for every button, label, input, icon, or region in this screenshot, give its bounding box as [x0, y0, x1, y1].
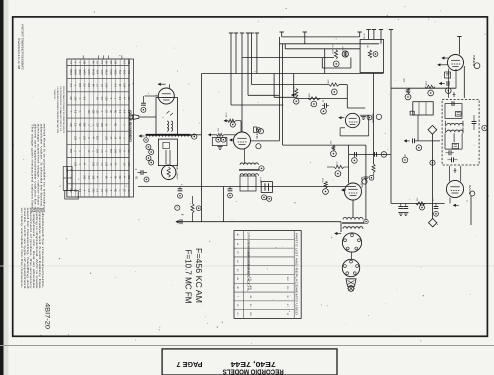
svg-text:+: + — [330, 237, 334, 239]
svg-text:12SA: 12SA — [109, 69, 112, 75]
can coil lower — [444, 128, 446, 134]
grid line arrow — [208, 133, 211, 136]
junction terminal on diamond wire — [430, 160, 435, 165]
resistor 100K b — [406, 88, 409, 94]
svg-text:1 MEG: 1 MEG — [292, 84, 294, 92]
wire vertical x347.3 — [346, 85, 348, 108]
wire 470K mid link — [339, 84, 347, 86]
terminal 4700 — [335, 171, 341, 177]
wire riser f — [380, 30, 382, 44]
terminal Ra — [293, 99, 299, 105]
svg-text:SPEAKER FIELD: SPEAKER FIELD — [53, 90, 56, 100]
svg-text:average superhet stage, rather: average superhet stage, rather than an — [37, 124, 40, 214]
can top mark — [453, 92, 455, 97]
svg-text:A7 056: A7 056 — [363, 34, 366, 40]
svg-text:7E4: 7E4 — [118, 70, 120, 75]
bus cap C b — [229, 187, 231, 189]
antenna cap assembly — [143, 96, 145, 103]
can bottom mark — [454, 168, 456, 173]
grid box terminal b — [221, 137, 226, 142]
terminal 47K det — [420, 205, 425, 210]
resistor 470K upper — [224, 119, 227, 122]
left terminal t1 — [144, 138, 149, 143]
svg-text:so many variables into the mea: so many variables into the measure- — [20, 208, 23, 289]
table corner cells — [63, 167, 72, 191]
wire V7 stub — [449, 198, 451, 204]
resistor 500K h — [308, 97, 320, 100]
svg-text:THE COOPERATION OF THE MANUFAC: THE COOPERATION OF THE MANUFACTURER OF T… — [59, 86, 62, 132]
table footnote ticks — [82, 55, 84, 58]
svg-text:NC: NC — [113, 189, 115, 193]
svg-text:.05: .05 — [322, 100, 324, 103]
svg-text:6AL5: 6AL5 — [468, 185, 471, 195]
wire V7 down — [470, 196, 472, 225]
tube V2 grid arrow — [229, 138, 232, 141]
small FM can — [413, 102, 433, 115]
wire bus y85 — [252, 84, 329, 86]
svg-text:470K: 470K — [341, 46, 343, 51]
wire y145.1 — [283, 144, 366, 146]
can trimmer upper — [455, 112, 461, 117]
tube V1 6BA6 IF amp — [158, 88, 174, 104]
svg-text:6AQ5: 6AQ5 — [91, 69, 94, 76]
resistor 47K det — [416, 202, 425, 205]
det cap ground a — [400, 203, 402, 206]
wire vertical x223.4 — [222, 187, 224, 222]
svg-text:98: 98 — [70, 169, 72, 171]
osc coil box — [360, 39, 383, 72]
wire riser a — [281, 32, 283, 37]
svg-text:100K: 100K — [424, 81, 426, 86]
terminal 15K — [331, 151, 337, 157]
cap a y154 — [354, 152, 356, 157]
can lower loop — [444, 133, 446, 149]
can side terminal — [482, 125, 487, 130]
wire y105 — [231, 104, 283, 106]
svg-text:The stage gain measured values: The stage gain measured values listed — [31, 124, 34, 214]
svg-text:6BA6: 6BA6 — [69, 69, 72, 75]
bus cap C a — [179, 187, 181, 189]
svg-text:RECORDIO MODELS: RECORDIO MODELS — [222, 368, 283, 375]
svg-text:6BA6: 6BA6 — [78, 69, 81, 75]
grid cap box U1 — [445, 72, 451, 78]
wire vertical x279.4 — [278, 44, 280, 141]
circled resistor 470K — [342, 51, 348, 57]
pin circle 7a — [149, 150, 154, 155]
wire vertical x324.7 — [324, 49, 326, 74]
terminal x405 — [402, 157, 408, 163]
wire vertical x274.1 — [273, 74, 275, 98]
tube U1 grid arrow 2 — [437, 63, 440, 66]
diamond test point 2 — [429, 219, 437, 227]
can cap low b — [451, 157, 453, 162]
tube V7 ratio detector — [446, 180, 463, 197]
resistor left chain — [372, 164, 375, 172]
svg-text:of alignment, etc., that an ab: of alignment, etc., that an absolute — [32, 208, 35, 290]
svg-text:† VOLTAGE AND RESISTANCE READI: † VOLTAGE AND RESISTANCE READINGS MAY VA… — [56, 86, 59, 133]
volume terminal — [196, 206, 201, 211]
resistor 15K — [332, 145, 335, 150]
svg-text:47: 47 — [65, 181, 67, 183]
tube V4 grid arrow — [341, 188, 344, 191]
wire vertical x293.7 — [293, 74, 295, 98]
det cap c — [435, 203, 437, 206]
wire V4 plate down — [352, 200, 354, 217]
wire y98.4 — [297, 97, 347, 99]
svg-text:4.5 MEG: 4.5 MEG — [331, 44, 333, 55]
wire V5 to V6 — [351, 252, 353, 259]
svg-text:500K: 500K — [321, 178, 323, 183]
resistor 100K — [425, 85, 435, 88]
IF can dashed box — [442, 100, 479, 166]
svg-text:substituted for measurements.: substituted for measurements. — [41, 208, 44, 290]
terminal B — [144, 177, 149, 182]
svg-text:6BE6: 6BE6 — [74, 69, 76, 75]
can cap right — [472, 121, 477, 123]
pin circle 5 — [146, 145, 151, 150]
wire V2 plate — [244, 149, 246, 163]
pilot lamp — [162, 165, 176, 179]
antenna coil row — [147, 135, 192, 137]
wire can to V7 a — [449, 166, 451, 182]
wire route y73.5 — [202, 73, 384, 75]
svg-text:117Z: 117Z — [100, 69, 102, 75]
svg-text:PAGE 7: PAGE 7 — [176, 360, 202, 367]
wire bus y36.9 — [282, 36, 360, 38]
IF can box1 — [156, 98, 178, 135]
svg-text:35Z5: 35Z5 — [113, 69, 115, 75]
wire y117 phono line — [139, 116, 156, 118]
faint crease line — [0, 265, 494, 267]
tube U1 cathode chain — [448, 69, 450, 98]
svg-text:7E40, 7E44: 7E40, 7E44 — [231, 360, 276, 367]
parts table grid — [234, 231, 301, 319]
resistor 470K mid — [329, 83, 339, 86]
bus2 cap left — [179, 219, 181, 224]
wire bus y57.5 — [242, 57, 334, 59]
output transformer terminal — [364, 219, 368, 223]
can center lead — [453, 133, 455, 142]
wire cap to can — [415, 140, 440, 142]
terminal 500x — [323, 189, 329, 195]
tube U1 6BE6 converter — [448, 55, 464, 71]
svg-text:NC: NC — [113, 123, 115, 127]
wire riser c — [359, 32, 361, 37]
IF can switch marks — [167, 111, 170, 114]
wire vertical x365.9 — [365, 145, 367, 219]
electrolytic 4.6MD box — [261, 182, 272, 193]
pin circle 7b — [149, 160, 154, 165]
coil bar terminal — [192, 134, 197, 139]
wire y95.3 — [248, 94, 279, 96]
table bottom box — [65, 190, 78, 199]
antenna arrow V1 — [158, 83, 161, 86]
svg-text:DIAL LAMP: DIAL LAMP — [176, 165, 179, 181]
wire can to V7 b — [460, 166, 462, 182]
electrolytic terminals — [262, 195, 267, 200]
svg-text:F=10.7 MC FM: F=10.7 MC FM — [183, 250, 192, 304]
svg-text:4MD: 4MD — [249, 285, 251, 290]
wire supply vertical 4 — [247, 33, 249, 95]
svg-text:above are approximate values f: above are approximate values for an — [34, 124, 37, 214]
svg-text:placement of probes, the accur: placement of probes, the accuracy — [29, 208, 32, 291]
wire vertical x341 — [340, 222, 342, 232]
wire supply vertical 5 — [251, 33, 253, 85]
voltage table grid — [67, 59, 129, 197]
wire y88.2 line — [391, 87, 456, 89]
svg-text:absolute value. It should be b: absolute value. It should be borne in — [40, 124, 43, 214]
svg-text:PIN: PIN — [127, 70, 129, 74]
tube V3 plate wiring — [360, 114, 369, 116]
svg-text:470K: 470K — [225, 113, 227, 118]
svg-text:4.6MD: 4.6MD — [259, 177, 261, 183]
can coil upper — [444, 121, 446, 127]
terminal 100A — [321, 108, 327, 114]
wire speaker arrow — [334, 232, 337, 235]
wire riser d — [368, 30, 370, 40]
svg-text:PARTS LIST AND REPLACEMENTS US: PARTS LIST AND REPLACEMENTS USED — [294, 233, 298, 315]
pin circle 3 — [146, 156, 151, 161]
wire y108 — [347, 107, 365, 109]
resistor 4700 — [334, 165, 344, 168]
connector 1B6 — [254, 127, 257, 132]
svg-text:470K: 470K — [327, 79, 329, 84]
terminal 100K — [428, 90, 434, 96]
IF can coil b — [171, 121, 173, 131]
scan speckle noise — [121, 188, 124, 191]
interstage transformer coils — [240, 163, 259, 165]
svg-text:411: 411 — [366, 45, 368, 48]
terminal 500K — [311, 101, 317, 107]
wire B+ vertical x391 — [390, 30, 392, 204]
svg-text:ments, such as type of equipme: ments, such as type of equipment — [23, 208, 26, 290]
grid box — [212, 138, 227, 146]
terminal below U1 — [446, 88, 452, 94]
index strip box — [162, 349, 337, 375]
IF can coil a — [167, 121, 169, 131]
svg-text:47K: 47K — [416, 198, 418, 202]
diamond test point 1 — [428, 125, 437, 134]
svg-text:inoperative and 3-volt battery: inoperative and 3-volt battery bias — [38, 208, 41, 291]
wire riser e — [373, 30, 375, 40]
ground upper left — [361, 116, 366, 118]
resistor R volume — [191, 204, 194, 213]
wire vertical x348.6 — [348, 145, 350, 183]
plug sunburst — [348, 286, 354, 292]
osc coil terminal — [373, 52, 378, 57]
grid box ground — [217, 146, 222, 148]
osc coil resistor — [368, 50, 371, 58]
wire detector line y203.4 — [391, 202, 445, 204]
can inner loop — [445, 104, 462, 119]
svg-text:4BI7-20: 4BI7-20 — [44, 303, 51, 330]
terminal 470K upper — [230, 122, 235, 127]
tube V3 6AV6 — [345, 113, 359, 127]
svg-text:6AT6: 6AT6 — [255, 128, 259, 140]
svg-text:NC: NC — [69, 97, 71, 101]
det arrow — [453, 204, 456, 207]
svg-text:reading is impractical. AVC is: reading is impractical. AVC is made — [35, 208, 38, 290]
ground chain left — [373, 74, 375, 165]
tube V2 6AT6 — [234, 132, 251, 149]
wire vertical x282.5 — [282, 44, 284, 145]
svg-text:1.2: 1.2 — [65, 169, 67, 172]
wire bus2 y221.7 — [176, 221, 341, 223]
can trimmer lower — [452, 143, 458, 148]
wire V2 plate to vertical — [251, 140, 280, 142]
wire box2 bottom — [322, 67, 351, 69]
resistor Ra 1MEG — [295, 88, 298, 97]
det cap ground b — [405, 203, 407, 206]
power plug — [346, 279, 356, 287]
cap arrow below U1 — [439, 82, 442, 85]
scan edge dark strip — [0, 0, 4, 375]
coil bar — [146, 134, 191, 136]
capacitor C4 — [140, 170, 142, 175]
cap 100A — [324, 103, 326, 108]
wire riser b — [304, 32, 306, 37]
wire supply vertical 3 — [241, 33, 243, 132]
svg-text:NC: NC — [118, 176, 120, 180]
svg-text:500K: 500K — [308, 93, 310, 98]
resistor 47K grid — [217, 133, 224, 136]
svg-text:6X4: 6X4 — [96, 70, 98, 75]
svg-text:RECEIVER MAKES IT POSSIBLE TO: RECEIVER MAKES IT POSSIBLE TO EXTEND THI… — [62, 86, 65, 133]
wire FM can drop — [417, 115, 419, 141]
wire vertical x202.5 — [201, 74, 203, 222]
svg-text:6AT6: 6AT6 — [87, 69, 90, 75]
svg-text:NC: NC — [109, 61, 111, 65]
wire bus y48.8 — [285, 48, 360, 50]
grid box terminal a — [216, 137, 221, 142]
tube V5 rectifier socket — [342, 233, 361, 252]
svg-text:50L6: 50L6 — [105, 69, 107, 75]
svg-text:110: 110 — [432, 198, 434, 201]
node bus junction — [284, 44, 286, 49]
circle R — [175, 205, 180, 210]
wire vertical x304.8 — [304, 37, 306, 44]
resistor 500x — [324, 181, 327, 188]
wire y154.4 — [349, 153, 391, 155]
tube V3 grid arrow — [338, 116, 341, 119]
terminal osc — [333, 61, 339, 67]
svg-text:100K: 100K — [403, 78, 405, 83]
interstage terminal — [259, 166, 264, 171]
cap arrow assembly — [404, 139, 407, 142]
arrow y95 — [291, 93, 294, 96]
tube U1 top lead — [458, 37, 460, 55]
output transformer — [343, 218, 363, 220]
svg-text:used for measuring, handling a: used for measuring, handling and — [26, 208, 29, 290]
wire V1 left pin — [145, 95, 159, 97]
voltage table header band — [129, 59, 134, 197]
svg-text:mind that it is possible to in: mind that it is possible to introduce — [43, 124, 46, 215]
page fold line — [0, 345, 494, 347]
wire diamond vertical — [432, 134, 434, 218]
wire supply vertical 2 — [235, 33, 237, 74]
wire y97.3 — [274, 96, 297, 98]
tube V6 socket — [342, 259, 359, 276]
svg-text:6SQ: 6SQ — [122, 70, 124, 75]
svg-text:F=456 KC AM: F=456 KC AM — [194, 248, 203, 303]
tube V4 output 6AQ5 — [345, 183, 362, 200]
wire U1 to can — [463, 66, 465, 98]
wire supply vertical 6 — [256, 33, 258, 74]
svg-text:NC: NC — [113, 110, 115, 114]
FM can trimmer — [410, 111, 414, 115]
loop antenna box — [158, 139, 177, 166]
cap b y154 — [374, 152, 376, 157]
ground left chain — [363, 176, 368, 178]
can cap low a — [448, 150, 450, 155]
wire supply vertical 1 — [230, 33, 232, 105]
wire bus y43.8 — [279, 43, 379, 45]
resistor 4.5MEG — [334, 50, 337, 59]
svg-text:6AT6: 6AT6 — [82, 69, 85, 75]
svg-text:NC: NC — [78, 123, 80, 127]
phono jack — [129, 115, 133, 119]
interstage secondary box — [240, 176, 256, 191]
coil row arrow — [139, 134, 142, 137]
terminal 470K mid — [331, 89, 337, 95]
svg-text:©Howard W. Sams & Co., Inc. 19: ©Howard W. Sams & Co., Inc. 1948 — [17, 38, 20, 70]
wire audio bus y186 — [138, 186, 356, 188]
can loop cap — [451, 101, 453, 106]
tube U1 grid arrow 1 — [441, 56, 444, 59]
